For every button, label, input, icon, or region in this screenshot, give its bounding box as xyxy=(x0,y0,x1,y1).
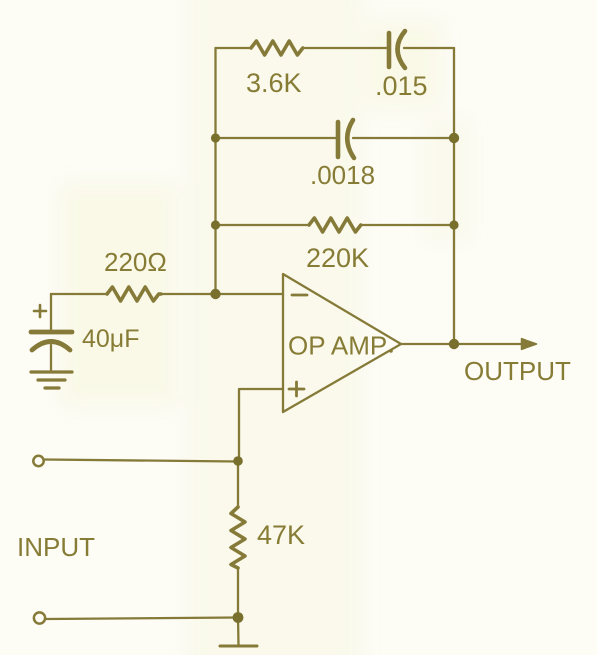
op-amp plus sign xyxy=(289,382,304,396)
wire: junction down to 47K xyxy=(237,461,239,507)
period after AMP xyxy=(389,349,393,353)
svg-text:220K: 220K xyxy=(306,243,369,273)
wire: middle branch left segment xyxy=(216,137,338,139)
svg-text:.0018: .0018 xyxy=(310,160,375,190)
resistor R 3.6K zigzag xyxy=(251,41,303,55)
node: right rail / .0018 xyxy=(449,133,459,143)
capacitor C 40uF bottom plate (curved) xyxy=(32,342,70,351)
svg-text:OP AMP: OP AMP xyxy=(288,331,387,361)
node: output xyxy=(449,339,459,349)
wire: top branch right segment xyxy=(404,47,454,49)
wire: junction to ground bar xyxy=(237,618,240,646)
wire: top branch middle segment xyxy=(303,47,388,49)
wire: output xyxy=(401,343,524,345)
op-amp minus sign xyxy=(292,294,307,297)
arrowhead output xyxy=(522,339,537,350)
node: right rail / 220K xyxy=(449,220,458,229)
wire: non-inverting input xyxy=(239,389,283,461)
resistor R 220ohm zigzag xyxy=(107,287,161,301)
svg-text:3.6K: 3.6K xyxy=(246,68,302,98)
capacitor C .015 right plate (curved) xyxy=(398,31,406,68)
node: bottom input / ground xyxy=(233,612,244,623)
wire: right vertical rail xyxy=(453,48,455,344)
wire: down to 40uF capacitor xyxy=(50,294,52,331)
svg-text:47K: 47K xyxy=(257,520,305,550)
terminal: input bottom circle xyxy=(34,612,45,623)
ground bar bottom xyxy=(220,645,257,648)
wire: left vertical rail xyxy=(214,48,216,294)
node: left rail / input xyxy=(210,289,220,299)
ground symbol (under 40uF) xyxy=(31,370,72,373)
resistor R 47K vertical zigzag xyxy=(231,507,245,568)
capacitor C .0018 left plate xyxy=(336,122,341,157)
svg-text:40μF: 40μF xyxy=(82,325,139,353)
svg-text:INPUT: INPUT xyxy=(17,532,95,562)
node: left rail / 220K xyxy=(211,220,220,229)
wire: 220K branch right segment xyxy=(362,224,454,226)
wire: 220ohm to op-amp minus input xyxy=(160,293,283,295)
wire: 47K to bottom junction xyxy=(237,568,239,617)
wire: middle branch right segment xyxy=(353,137,454,139)
op-amp U1 triangle xyxy=(283,274,401,412)
node: left rail / .0018 xyxy=(211,133,220,142)
svg-text:220Ω: 220Ω xyxy=(104,247,167,277)
wire: bottom input to junction xyxy=(46,618,238,620)
wire: 220K branch left segment xyxy=(216,224,310,226)
capacitor C 40uF top plate (straight) xyxy=(31,330,72,335)
terminal: input top circle xyxy=(33,456,43,466)
resistor R 220K zigzag xyxy=(309,218,361,232)
wire: input run to inverting input xyxy=(51,293,107,295)
wire: top branch left segment xyxy=(216,47,252,49)
node: plus input / top input xyxy=(233,456,243,466)
plus polarity mark for 40uF xyxy=(34,305,46,317)
capacitor C .0018 right plate (curved) xyxy=(347,120,354,158)
capacitor C .015 left plate xyxy=(387,33,392,67)
wire: top input to junction xyxy=(44,460,238,462)
wire: 40uF to ground xyxy=(50,345,52,371)
svg-text:.015: .015 xyxy=(375,71,428,101)
svg-text:OUTPUT: OUTPUT xyxy=(464,356,571,386)
